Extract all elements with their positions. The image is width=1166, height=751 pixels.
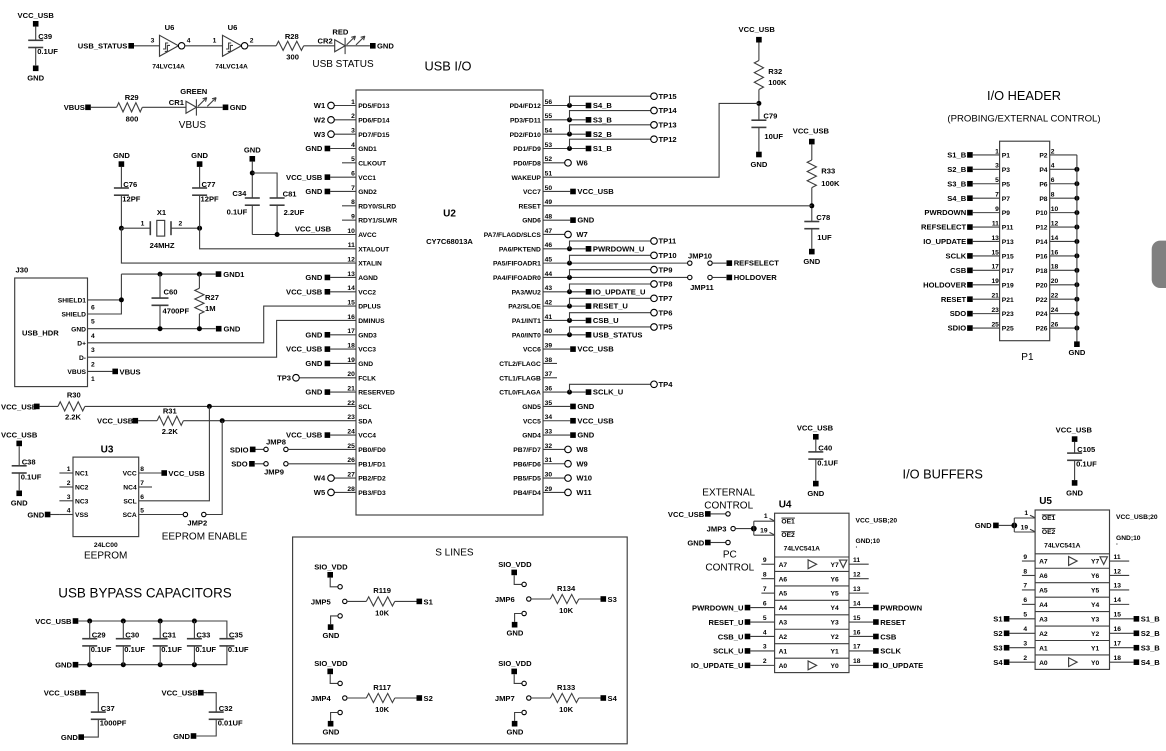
svg-text:13: 13 (347, 271, 355, 278)
svg-text:R31: R31 (163, 406, 178, 415)
svg-text:6: 6 (1023, 597, 1027, 604)
svg-text:PB3/FD3: PB3/FD3 (358, 490, 386, 497)
jumper JMP6 GND leg (522, 611, 526, 615)
svg-text:VCC_USB: VCC_USB (18, 11, 55, 20)
svg-text:S LINES: S LINES (435, 547, 474, 558)
svg-text:5: 5 (91, 318, 95, 325)
svg-text:24LC00: 24LC00 (94, 542, 118, 549)
svg-text:Y7: Y7 (1091, 559, 1099, 566)
svg-text:C39: C39 (38, 32, 52, 41)
svg-text:7: 7 (351, 185, 355, 192)
svg-text:A5: A5 (779, 591, 788, 598)
capacitor C32 0.01UF (209, 711, 224, 713)
U4 row separator (775, 599, 849, 601)
wire to PB1 (288, 463, 356, 465)
wire (120, 195, 122, 228)
svg-text:0.1UF: 0.1UF (21, 472, 42, 481)
svg-text:JMP9: JMP9 (264, 467, 284, 476)
svg-text:16: 16 (1114, 626, 1122, 633)
node junction (192, 619, 197, 624)
svg-text:NC3: NC3 (75, 498, 89, 505)
U4 row separator (775, 614, 849, 616)
svg-text:VBUS: VBUS (64, 103, 85, 112)
svg-text:74LVC541A: 74LVC541A (784, 546, 820, 553)
svg-text:4: 4 (1023, 626, 1027, 633)
svg-text:1: 1 (67, 466, 71, 473)
node junction (158, 619, 163, 624)
svg-text:IO_UPDATE: IO_UPDATE (880, 661, 923, 670)
svg-text:C37: C37 (101, 704, 115, 713)
svg-text:VCC_USB: VCC_USB (1, 402, 38, 411)
svg-text:VBUS: VBUS (120, 367, 141, 376)
svg-text:18: 18 (347, 343, 355, 350)
U3 pin 2 NC2 (59, 486, 73, 488)
svg-text:RESET: RESET (519, 203, 542, 210)
svg-text:4: 4 (351, 142, 355, 149)
svg-text:C31: C31 (162, 631, 177, 640)
svg-text:52: 52 (545, 156, 553, 163)
svg-text:0.1UF: 0.1UF (37, 47, 58, 56)
node PWRDOWN output (873, 605, 879, 611)
svg-text:17: 17 (347, 328, 355, 335)
svg-text:2: 2 (67, 480, 71, 487)
svg-text:DMINUS: DMINUS (358, 318, 385, 325)
svg-text:GND: GND (305, 187, 322, 196)
svg-text:11: 11 (348, 242, 355, 249)
svg-text:10: 10 (1051, 206, 1059, 213)
wire (18, 473, 20, 490)
svg-text:33: 33 (545, 428, 553, 435)
svg-text:SCLK: SCLK (946, 252, 967, 261)
svg-text:74LVC14A: 74LVC14A (152, 64, 185, 71)
svg-text:3: 3 (151, 38, 155, 45)
ground flag GND (J30) (216, 326, 222, 332)
wire (999, 524, 1015, 526)
svg-text:4: 4 (91, 333, 95, 340)
svg-text:U2: U2 (443, 209, 456, 220)
svg-text:W10: W10 (576, 474, 592, 483)
svg-text:6: 6 (763, 600, 767, 607)
U4 row separator (775, 585, 849, 587)
svg-text:1000PF: 1000PF (100, 719, 127, 728)
svg-text:2: 2 (179, 220, 183, 227)
capacitor C77 12PF (192, 187, 207, 189)
svg-text:2: 2 (1023, 655, 1027, 662)
resistor R32 100K (754, 61, 763, 90)
svg-text:EEPROM ENABLE: EEPROM ENABLE (162, 531, 248, 542)
svg-text:1: 1 (213, 38, 217, 45)
svg-text:32: 32 (545, 443, 553, 450)
svg-text:43: 43 (545, 285, 553, 292)
svg-text:A0: A0 (1039, 660, 1048, 667)
svg-text:26: 26 (1051, 321, 1059, 328)
svg-text:IO_UPDATE_U: IO_UPDATE_U (691, 661, 744, 670)
svg-text:12PF: 12PF (122, 195, 141, 204)
svg-text:PWRDOWN_U: PWRDOWN_U (692, 603, 744, 612)
node S4 flag (601, 695, 607, 701)
ground GND (P1) (1074, 341, 1080, 347)
svg-text:2.2K: 2.2K (65, 413, 82, 422)
svg-text:1: 1 (1024, 510, 1028, 517)
capacitor C31 0.1UF (153, 638, 168, 640)
wire (247, 45, 276, 47)
svg-text:TP10: TP10 (659, 251, 677, 260)
svg-text:SDO: SDO (231, 460, 248, 469)
svg-text:SCL: SCL (358, 404, 371, 411)
svg-text:PA0/INT0: PA0/INT0 (512, 332, 541, 339)
ground GND (C105) (1072, 480, 1078, 486)
svg-text:S2: S2 (993, 629, 1002, 638)
test point TP8 (570, 284, 651, 292)
svg-text:C34: C34 (232, 189, 247, 198)
svg-text:SCLK_U: SCLK_U (713, 647, 744, 656)
svg-text:REFSELECT: REFSELECT (921, 223, 967, 232)
wire P1 ground bus (1076, 155, 1078, 343)
svg-text:GND: GND (244, 146, 261, 155)
svg-text:PB5/FD5: PB5/FD5 (513, 476, 541, 483)
capacitor C35 0.1UF (219, 638, 234, 640)
svg-text:18: 18 (853, 658, 861, 665)
resistor R133 10K (550, 693, 579, 702)
svg-text:R32: R32 (768, 67, 782, 76)
svg-text:VCC_USB: VCC_USB (577, 187, 614, 196)
wire (395, 600, 417, 602)
svg-text:PB1/FD1: PB1/FD1 (358, 461, 386, 468)
svg-text:CSB_U: CSB_U (593, 316, 619, 325)
svg-text:A1: A1 (1039, 645, 1048, 652)
svg-text:W7: W7 (576, 230, 587, 239)
svg-text:S1_B: S1_B (947, 151, 967, 160)
svg-text:10K: 10K (559, 606, 573, 615)
svg-text:RESERVED: RESERVED (358, 390, 395, 397)
svg-text:0.1UF: 0.1UF (817, 458, 838, 467)
svg-text:C33: C33 (196, 631, 210, 640)
wire shield top rail (121, 273, 215, 275)
svg-text:SIO_VDD: SIO_VDD (498, 560, 532, 569)
svg-text:GND: GND (803, 257, 820, 266)
svg-text:PWRDOWN: PWRDOWN (880, 603, 922, 612)
U4 row separator (775, 556, 849, 558)
svg-text:CTL2/FLAGC: CTL2/FLAGC (499, 361, 541, 368)
wire (531, 697, 550, 699)
wire D- to DMINUS (88, 320, 357, 357)
svg-text:18: 18 (1051, 264, 1059, 271)
node S2_B output (1134, 630, 1140, 636)
svg-text:S4: S4 (993, 658, 1003, 667)
svg-text:0.1UF: 0.1UF (91, 645, 112, 654)
svg-text:W6: W6 (576, 158, 587, 167)
svg-text:GND: GND (750, 160, 767, 169)
resistor R117 10K (366, 693, 395, 702)
svg-text:CONTROL: CONTROL (705, 563, 754, 574)
svg-text:S3_B: S3_B (1141, 644, 1161, 653)
svg-text:.: . (856, 543, 858, 550)
svg-text:PD4/FD12: PD4/FD12 (510, 103, 542, 110)
svg-text:P7: P7 (1002, 196, 1010, 203)
svg-text:S2_B: S2_B (593, 130, 613, 139)
svg-text:CSB_U: CSB_U (718, 632, 744, 641)
svg-text:25: 25 (991, 321, 999, 328)
svg-text:S2_B: S2_B (947, 165, 967, 174)
svg-text:Y2: Y2 (831, 634, 839, 641)
wire VBUS (88, 370, 113, 372)
svg-text:PA2/SLOE: PA2/SLOE (508, 304, 541, 311)
capacitor C29 0.1UF (82, 638, 97, 640)
svg-text:R30: R30 (67, 390, 81, 399)
svg-text:Y2: Y2 (1091, 631, 1099, 638)
svg-text:46: 46 (545, 242, 553, 249)
svg-text:7: 7 (1023, 583, 1027, 590)
svg-text:TP5: TP5 (659, 323, 674, 332)
svg-text:S4_B: S4_B (593, 101, 613, 110)
svg-text:74LVC14A: 74LVC14A (215, 64, 248, 71)
svg-text:GND: GND (975, 521, 992, 530)
svg-text:6: 6 (1051, 177, 1055, 184)
svg-text:USB I/O: USB I/O (425, 59, 472, 74)
svg-text:PB0/FD0: PB0/FD0 (358, 447, 386, 454)
svg-text:P10: P10 (1036, 210, 1048, 217)
svg-text:PB2/FD2: PB2/FD2 (358, 476, 386, 483)
svg-text:PB6/FD6: PB6/FD6 (513, 461, 541, 468)
svg-text:S3_B: S3_B (593, 115, 613, 124)
svg-text:36: 36 (545, 386, 553, 393)
wire to OE1/OE2 (753, 521, 755, 535)
wire (514, 674, 522, 683)
svg-text:45: 45 (545, 257, 553, 264)
svg-text:SCLK: SCLK (880, 647, 901, 656)
svg-text:SDO: SDO (950, 309, 967, 318)
svg-text:OE2: OE2 (1042, 529, 1056, 536)
svg-text:W11: W11 (576, 488, 592, 497)
node junction (87, 619, 92, 624)
svg-text:3: 3 (995, 163, 999, 170)
svg-text:2: 2 (351, 113, 355, 120)
jumper JMP6 (522, 582, 526, 586)
svg-text:Y3: Y3 (831, 620, 839, 627)
ground GND (JMP4) (328, 721, 334, 727)
svg-text:HOLDOVER: HOLDOVER (734, 273, 778, 282)
svg-text:NC4: NC4 (123, 485, 137, 492)
wire (120, 167, 122, 188)
svg-text:PA1/INT1: PA1/INT1 (512, 318, 541, 325)
U4 row separator (775, 570, 849, 572)
svg-text:C105: C105 (1077, 445, 1096, 454)
svg-text:A3: A3 (1039, 616, 1048, 623)
svg-text:100K: 100K (821, 179, 840, 188)
svg-text:VCC_USB: VCC_USB (577, 345, 614, 354)
svg-text:U6: U6 (165, 23, 175, 32)
wire (196, 106, 222, 108)
svg-text:16: 16 (1051, 249, 1059, 256)
wire SCL to U3 (139, 406, 210, 500)
capacitor C34 0.1UF (245, 197, 260, 199)
svg-text:28: 28 (347, 486, 355, 493)
wire (193, 646, 195, 665)
svg-text:15: 15 (853, 615, 861, 622)
svg-text:14: 14 (1051, 235, 1059, 242)
node junction (1074, 311, 1079, 316)
svg-text:PWRDOWN: PWRDOWN (924, 208, 966, 217)
svg-text:2: 2 (1051, 148, 1055, 155)
wire (89, 646, 91, 665)
svg-text:40: 40 (545, 328, 553, 335)
svg-text:R134: R134 (557, 584, 576, 593)
svg-text:GND: GND (322, 631, 339, 640)
svg-text:W1: W1 (314, 101, 326, 110)
wire (91, 106, 117, 108)
svg-text:S1: S1 (993, 615, 1003, 624)
svg-text:USB_STATUS: USB_STATUS (593, 330, 643, 339)
svg-text:VCC_USB: VCC_USB (162, 689, 199, 698)
wire (758, 127, 760, 151)
svg-text:DPLUS: DPLUS (358, 304, 381, 311)
wire (758, 90, 760, 121)
svg-text:0.1UF: 0.1UF (195, 645, 216, 654)
svg-text:C76: C76 (123, 180, 137, 189)
svg-text:GND: GND (687, 538, 704, 547)
svg-text:VCC6: VCC6 (523, 347, 541, 354)
svg-text:TP11: TP11 (659, 237, 678, 246)
resistor R29 800 (117, 103, 143, 112)
svg-text:U4: U4 (779, 499, 792, 510)
scrollbar thumb (1152, 241, 1166, 288)
node VBUS flag (112, 369, 118, 375)
svg-text:S2: S2 (424, 694, 433, 703)
node REFSELECT flag (712, 262, 726, 264)
wire (514, 575, 522, 584)
wire (758, 43, 760, 61)
svg-text:2: 2 (91, 362, 95, 369)
wire (251, 162, 253, 198)
svg-text:19: 19 (760, 528, 768, 535)
svg-text:GND1: GND1 (223, 270, 245, 279)
svg-text:VCC_USB: VCC_USB (1, 430, 38, 439)
svg-text:CTL0/FLAGA: CTL0/FLAGA (499, 390, 541, 397)
wire (330, 674, 338, 683)
svg-text:C29: C29 (92, 631, 106, 640)
svg-text:GND: GND (305, 388, 322, 397)
svg-text:PD2/FD10: PD2/FD10 (510, 132, 542, 139)
svg-text:P17: P17 (1002, 268, 1014, 275)
svg-text:GND: GND (1066, 488, 1083, 497)
svg-text:6: 6 (91, 304, 95, 311)
svg-text:4700PF: 4700PF (163, 307, 190, 316)
svg-text:CR2: CR2 (317, 36, 332, 45)
svg-text:4: 4 (187, 38, 191, 45)
U4 row separator (775, 657, 849, 659)
svg-text:OE1: OE1 (1042, 515, 1056, 522)
svg-text:U5: U5 (1039, 496, 1052, 507)
node S1 flag (417, 599, 423, 605)
svg-text:P22: P22 (1036, 297, 1048, 304)
svg-text:TP7: TP7 (659, 294, 673, 303)
svg-text:WAKEUP: WAKEUP (511, 175, 541, 182)
svg-text:0.1UF: 0.1UF (228, 645, 249, 654)
svg-text:12: 12 (853, 571, 861, 578)
svg-text:VCC_USB;20: VCC_USB;20 (856, 517, 898, 524)
svg-text:10K: 10K (375, 705, 389, 714)
svg-text:42: 42 (545, 300, 553, 307)
svg-text:TP15: TP15 (659, 92, 678, 101)
svg-text:300: 300 (286, 53, 299, 62)
node junction (220, 418, 225, 423)
wire (184, 45, 222, 47)
svg-text:VCC: VCC (123, 471, 137, 478)
svg-text:14: 14 (853, 600, 861, 607)
svg-text:SHIELD: SHIELD (61, 312, 86, 319)
node junction (121, 662, 126, 667)
svg-text:48: 48 (545, 214, 553, 221)
svg-text:14: 14 (1114, 597, 1122, 604)
svg-text:P9: P9 (1002, 210, 1010, 217)
svg-text:C35: C35 (229, 631, 244, 640)
test point TP6 (570, 313, 651, 321)
svg-text:15: 15 (347, 300, 355, 307)
svg-text:GND: GND (377, 42, 394, 51)
svg-text:P5: P5 (1002, 181, 1010, 188)
svg-text:12: 12 (1114, 568, 1122, 575)
svg-text:AGND: AGND (358, 275, 378, 282)
svg-text:TP14: TP14 (659, 106, 678, 115)
svg-text:GND3: GND3 (358, 332, 377, 339)
svg-text:22: 22 (1051, 293, 1059, 300)
svg-text:19: 19 (1021, 525, 1029, 532)
svg-text:A7: A7 (1039, 559, 1048, 566)
svg-text:GND: GND (322, 728, 339, 737)
svg-text:29: 29 (545, 486, 553, 493)
wire (811, 144, 813, 160)
svg-text:Y0: Y0 (1091, 660, 1099, 667)
svg-text:P18: P18 (1036, 268, 1048, 275)
svg-text:TP4: TP4 (659, 380, 674, 389)
resistor R134 10K (550, 594, 579, 603)
capacitor C81 2.2UF (270, 197, 285, 199)
jumper JMP2 (183, 512, 187, 516)
svg-text:VCC_USB: VCC_USB (168, 469, 205, 478)
svg-text:VCC_USB: VCC_USB (286, 173, 323, 182)
resistor R27 1M (198, 274, 200, 288)
svg-text:W9: W9 (576, 459, 587, 468)
svg-text:GND6: GND6 (522, 218, 541, 225)
svg-text:1: 1 (141, 220, 145, 227)
svg-text:SIO_VDD: SIO_VDD (314, 659, 348, 668)
svg-text:25: 25 (347, 443, 355, 450)
svg-text:RESET_U: RESET_U (708, 618, 744, 627)
svg-text:Y3: Y3 (1091, 616, 1099, 623)
U2 pin 44 wire (543, 276, 688, 278)
wire (89, 621, 91, 639)
svg-text:S4: S4 (608, 694, 618, 703)
svg-text:16: 16 (853, 629, 861, 636)
wire to XTALIN (121, 228, 356, 263)
svg-text:GND: GND (305, 273, 322, 282)
resistor R33 100K (807, 160, 816, 188)
svg-text:RESET: RESET (941, 295, 967, 304)
capacitor C76 12PF (114, 187, 129, 189)
svg-text:SDIO: SDIO (230, 445, 249, 454)
wire (196, 719, 216, 736)
svg-text:2.2K: 2.2K (162, 427, 179, 436)
jumper JMP11 (688, 275, 692, 279)
svg-text:18: 18 (1114, 655, 1122, 662)
svg-text:AVCC: AVCC (358, 232, 377, 239)
wire SHIELD (88, 274, 122, 314)
U3 pin 3 NC3 (59, 500, 73, 502)
node junction (1074, 181, 1079, 186)
wire (193, 621, 195, 639)
svg-text:C30: C30 (125, 631, 139, 640)
svg-text:23: 23 (991, 307, 999, 314)
